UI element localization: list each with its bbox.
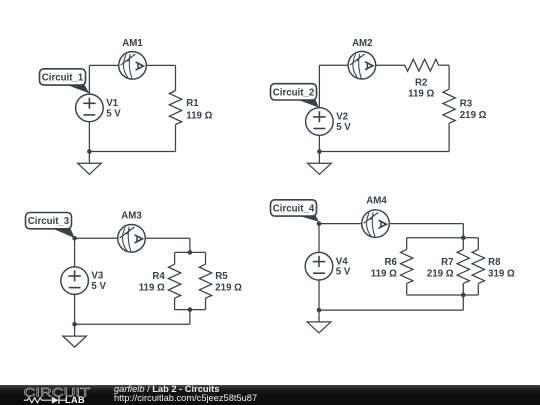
svg-text:AM3: AM3	[121, 211, 142, 222]
wire c4 parallel bottom bus	[407, 294, 479, 296]
svg-text:R5: R5	[215, 271, 228, 282]
ground c1	[78, 152, 102, 175]
ammeter AM1	[119, 38, 147, 79]
node flag Circuit_3	[26, 213, 75, 239]
resistor R6	[371, 249, 413, 283]
wire c4 right vertical	[462, 224, 464, 238]
voltage source V3	[61, 267, 107, 295]
ground c3	[63, 324, 87, 347]
wire c1 right vertical upper	[175, 65, 177, 90]
resistor R5	[199, 264, 242, 298]
svg-text:V2: V2	[336, 112, 348, 123]
svg-text:R8: R8	[488, 257, 501, 268]
resistor R3	[443, 89, 487, 123]
svg-text:R6: R6	[385, 257, 398, 268]
wire c3 R4 top stub	[174, 252, 176, 264]
wire c2 top right	[439, 64, 450, 66]
node c2 bottom junction	[317, 149, 322, 154]
ammeter AM3	[118, 211, 146, 253]
svg-text:219 Ω: 219 Ω	[215, 282, 242, 293]
wire c1 bottom	[89, 151, 175, 153]
node c4 parallel bottom junction	[461, 293, 466, 298]
wire c1 top	[89, 64, 175, 66]
node c3 top-left junction	[72, 236, 77, 241]
resistor R2	[405, 59, 439, 99]
svg-text:Circuit_1: Circuit_1	[42, 72, 84, 83]
svg-text:AM2: AM2	[352, 38, 372, 49]
resistor R8	[472, 249, 515, 283]
wire c4 R7 bottom stub	[462, 283, 464, 295]
wire c4 R8 bottom stub	[477, 283, 479, 295]
svg-text:Circuit_3: Circuit_3	[28, 216, 70, 227]
node c1 bottom junction	[87, 149, 92, 154]
svg-text:5 V: 5 V	[336, 267, 351, 278]
node c4 parallel top junction	[461, 235, 466, 240]
CircuitLab logo	[0, 385, 110, 405]
svg-text:R2: R2	[415, 77, 427, 88]
node c4 top-left junction	[317, 221, 322, 226]
svg-text:219 Ω: 219 Ω	[460, 110, 487, 121]
node c3 parallel bottom junction	[188, 307, 193, 312]
svg-text:R3: R3	[460, 99, 473, 110]
svg-text:5 V: 5 V	[106, 108, 121, 119]
svg-text:119 Ω: 119 Ω	[139, 282, 165, 293]
svg-text:LAB: LAB	[65, 394, 85, 404]
wire c4 R7 top stub	[462, 238, 464, 250]
svg-text:AM4: AM4	[366, 195, 387, 206]
svg-text:R4: R4	[152, 271, 165, 282]
ammeter AM4	[362, 195, 390, 237]
wire c2 right vertical upper	[448, 65, 450, 89]
wire c3 right vertical lower	[189, 310, 191, 325]
node c3 bottom-left junction	[72, 322, 77, 327]
wire c4 R8 top stub	[477, 238, 479, 250]
logo resistor squiggle	[24, 397, 52, 402]
svg-text:319 Ω: 319 Ω	[488, 268, 515, 279]
wire c3 R5 bottom stub	[205, 298, 207, 309]
wire c3 R5 top stub	[205, 252, 207, 264]
wire c3 top	[75, 237, 190, 239]
svg-text:219 Ω: 219 Ω	[427, 268, 454, 279]
resistor R1	[169, 91, 212, 125]
svg-text:119 Ω: 119 Ω	[186, 110, 212, 121]
svg-text:R1: R1	[186, 98, 199, 109]
node flag Circuit_4	[271, 200, 320, 222]
node c3 parallel top junction	[188, 250, 193, 255]
svg-text:119 Ω: 119 Ω	[408, 89, 434, 100]
wire c4 right vertical lower	[462, 295, 464, 310]
wire c2 right vertical lower	[448, 123, 450, 151]
wire c4 bottom	[319, 309, 463, 311]
wire c3 left vertical	[74, 238, 76, 324]
ammeter AM2	[348, 38, 376, 79]
svg-text:Circuit_2: Circuit_2	[273, 87, 314, 98]
svg-text:V1: V1	[106, 98, 118, 109]
ground c4	[307, 310, 331, 333]
voltage source V4	[305, 252, 351, 280]
resistor R7	[427, 249, 470, 283]
wire c3 parallel top bus	[175, 251, 206, 253]
wire c2 top left	[319, 64, 405, 66]
svg-text:5 V: 5 V	[91, 281, 106, 292]
svg-text:119 Ω: 119 Ω	[371, 268, 397, 279]
logo diode	[52, 396, 60, 403]
wire c3 bottom	[75, 323, 190, 325]
wire c4 R6 top stub	[406, 238, 408, 250]
resistor R4	[139, 264, 181, 298]
wire c2 left vertical	[318, 65, 320, 151]
ground c2	[308, 152, 332, 175]
voltage source V2	[306, 108, 352, 136]
svg-text:Circuit_4: Circuit_4	[273, 203, 315, 214]
wire c1 right vertical lower	[175, 125, 177, 152]
node flag Circuit_2	[271, 84, 319, 108]
svg-text:V4: V4	[336, 256, 348, 267]
wire c4 R6 bottom stub	[406, 283, 408, 295]
wire c1 left vertical	[88, 65, 90, 151]
svg-text:AM1: AM1	[122, 38, 143, 49]
svg-text:5 V: 5 V	[336, 122, 351, 133]
wire c2 bottom	[319, 151, 449, 153]
footer bar	[0, 385, 540, 405]
wire c3 right vertical	[189, 238, 191, 252]
wire c4 left vertical	[318, 224, 320, 311]
voltage source V1	[76, 94, 122, 122]
wire c4 top	[319, 223, 463, 225]
svg-text:R7: R7	[441, 257, 453, 268]
wire c4 parallel top bus	[407, 237, 479, 239]
wire c3 R4 bottom stub	[174, 298, 176, 309]
node c4 bottom-left junction	[317, 308, 322, 313]
footer titles	[114, 385, 257, 404]
node flag Circuit_1	[40, 69, 90, 94]
svg-text:V3: V3	[91, 271, 103, 282]
wire c3 parallel bottom bus	[175, 309, 206, 311]
